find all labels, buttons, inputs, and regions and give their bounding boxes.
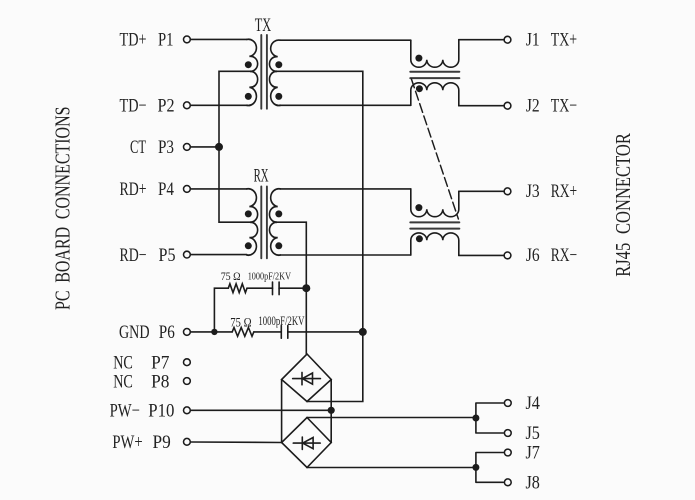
wire R2 to C2	[254, 331, 281, 333]
choke L2 top dot	[415, 204, 422, 211]
diode D2 symbol	[293, 437, 320, 449]
wire RX secondary top to choke	[280, 188, 411, 190]
node GND tee junction	[211, 329, 217, 335]
pin PW- P10 terminal	[184, 407, 191, 414]
svg-text:P3: P3	[158, 137, 174, 158]
diode D1 symbol	[293, 372, 321, 384]
node J7/J8 tee	[472, 464, 479, 471]
svg-text:P2: P2	[158, 96, 175, 117]
wire P4 to RX primary top	[191, 188, 247, 190]
wire lower diamond bottom to J7/J8	[307, 467, 476, 469]
svg-text:RX−: RX−	[551, 245, 577, 266]
pin PW+ P9 terminal	[184, 438, 191, 445]
pin J7	[504, 449, 511, 456]
transformer TX primary dots	[245, 61, 252, 68]
pin PW- P10 label	[110, 401, 175, 422]
svg-text:J2: J2	[526, 95, 540, 116]
svg-text:J7: J7	[526, 443, 540, 464]
svg-text:TX+: TX+	[551, 29, 577, 50]
svg-text:RX: RX	[254, 166, 269, 187]
svg-text:PC BOARD CONNECTIONS: PC BOARD CONNECTIONS	[51, 107, 75, 311]
svg-text:TD−: TD−	[120, 96, 147, 117]
svg-text:P9: P9	[153, 432, 171, 453]
svg-text:J6: J6	[526, 245, 540, 266]
svg-text:P6: P6	[159, 322, 175, 343]
pin J2 TX-	[459, 105, 504, 107]
wire P6 to RC network	[191, 331, 232, 333]
svg-text:P1: P1	[158, 30, 174, 51]
pin NC P7 label	[113, 353, 169, 374]
svg-text:J4: J4	[526, 393, 541, 414]
wire P5 to RX primary bottom	[191, 254, 247, 256]
choke L1 top winding	[411, 40, 459, 67]
choke L1 top dot	[415, 55, 422, 62]
wire P1 to TX primary top	[191, 38, 247, 40]
RC branch upper: wire from GND tee up	[214, 288, 228, 332]
transformer TX core	[261, 35, 267, 109]
choke L2 top winding	[411, 189, 459, 217]
resistor R2	[232, 328, 254, 337]
node PW- junction	[328, 407, 335, 414]
pin RD- P5 label	[120, 245, 176, 266]
node CT junction	[215, 143, 223, 151]
svg-text:P10: P10	[148, 401, 174, 422]
svg-text:1000pF/2KV: 1000pF/2KV	[248, 271, 291, 283]
svg-text:CT: CT	[130, 137, 146, 158]
resistor R1	[228, 284, 247, 293]
pin RD+ P4 label	[120, 179, 175, 200]
svg-text:PW−: PW−	[110, 401, 140, 422]
wire P3 to center-tap bus	[191, 146, 219, 148]
svg-text:RD+: RD+	[120, 179, 147, 200]
svg-text:P8: P8	[151, 371, 169, 392]
svg-text:TX−: TX−	[551, 95, 577, 116]
svg-text:RX+: RX+	[551, 181, 577, 202]
pin CT P3 terminal	[184, 144, 191, 151]
svg-text:P5: P5	[159, 245, 176, 266]
wire lower diamond top to J4/J5	[307, 417, 476, 419]
pin TD- P2 label	[120, 96, 175, 117]
pin NC P7 terminal	[184, 359, 191, 366]
svg-text:J1: J1	[526, 29, 540, 50]
svg-text:J3: J3	[526, 181, 540, 202]
pin J6 RX-	[459, 254, 504, 256]
resistor R1 75 ohm label	[221, 269, 291, 283]
wire bridge right rail	[330, 380, 332, 443]
pin J8	[504, 479, 511, 486]
wire C2 to TX CT	[288, 331, 363, 333]
svg-text:PW+: PW+	[112, 432, 142, 453]
svg-text:RD−: RD−	[120, 245, 147, 266]
svg-text:NC: NC	[113, 371, 133, 392]
node J4/J5 tee	[472, 415, 479, 422]
pin CT P3 label	[130, 137, 174, 158]
wire P10 to bridge right rail	[191, 409, 331, 411]
svg-text:J5: J5	[526, 423, 540, 444]
choke L2 core	[410, 222, 459, 228]
node C2/TX CT junction	[359, 328, 367, 336]
diode D1 diamond	[282, 354, 332, 402]
node C1/RX CT junction	[302, 284, 310, 292]
transformer RX secondary dots	[275, 210, 282, 217]
resistor R2 75 ohm label	[230, 314, 304, 330]
choke L1 core	[410, 72, 459, 78]
svg-text:P4: P4	[158, 179, 174, 200]
pin J3 RX+	[459, 190, 504, 192]
wire RX secondary center tap down	[275, 222, 307, 354]
svg-text:TD+: TD+	[120, 30, 147, 51]
choke L1 bottom winding	[411, 83, 459, 106]
wire J7/J8 branch	[476, 453, 504, 483]
pin TD+ P1 label	[120, 30, 174, 51]
transformer RX primary dots	[245, 210, 252, 217]
choke L1 bottom dot	[416, 85, 423, 92]
pin GND P6 label	[119, 322, 175, 343]
transformer TX secondary dots	[275, 61, 282, 68]
transformer TX secondary winding	[269, 40, 280, 105]
wire J4/J5 branch	[476, 403, 504, 433]
pin TD- P2 terminal	[184, 102, 191, 109]
choke L2 bottom dot	[416, 235, 423, 242]
pin TD+ P1 terminal	[184, 36, 191, 43]
svg-text:J8: J8	[526, 473, 540, 494]
transformer TX primary winding	[247, 39, 258, 105]
svg-text:75 Ω: 75 Ω	[221, 269, 241, 283]
pin NC P8 terminal	[184, 378, 191, 385]
dashed crossover link	[411, 79, 458, 219]
transformer RX primary winding	[247, 189, 258, 255]
capacitor C2	[281, 326, 288, 339]
wire TX secondary bottom to choke	[280, 104, 411, 106]
wire P2 to TX primary bottom	[191, 104, 247, 106]
capacitor C1	[273, 282, 280, 295]
choke L2 bottom winding	[411, 233, 459, 255]
transformer RX core	[261, 187, 267, 259]
pin J5	[504, 430, 511, 437]
wire RX secondary bottom to choke	[280, 254, 411, 256]
wire TX secondary top to choke	[280, 39, 411, 41]
wire TX primary center tap	[219, 71, 252, 222]
pin J4	[504, 400, 511, 407]
wire C1 to RX CT	[279, 287, 306, 289]
svg-text:GND: GND	[119, 322, 150, 343]
wire TX secondary center tap down	[275, 71, 363, 401]
transformer RX secondary winding	[269, 189, 280, 255]
pin GND P6 terminal	[184, 329, 191, 336]
pin PW+ P9 label	[112, 432, 170, 453]
svg-text:RJ45 CONNECTOR: RJ45 CONNECTOR	[611, 133, 635, 277]
wire bridge left rail	[281, 380, 283, 443]
pin RD- P5 terminal	[184, 251, 191, 258]
pin RD+ P4 terminal	[184, 186, 191, 193]
wire P9 to lower diode left corner	[191, 441, 282, 444]
pin NC P8 label	[113, 371, 169, 392]
wire R1 to C1	[247, 287, 273, 289]
svg-text:TX: TX	[255, 15, 272, 36]
pin J1 TX+	[459, 39, 504, 41]
diode D2 diamond	[282, 418, 332, 468]
